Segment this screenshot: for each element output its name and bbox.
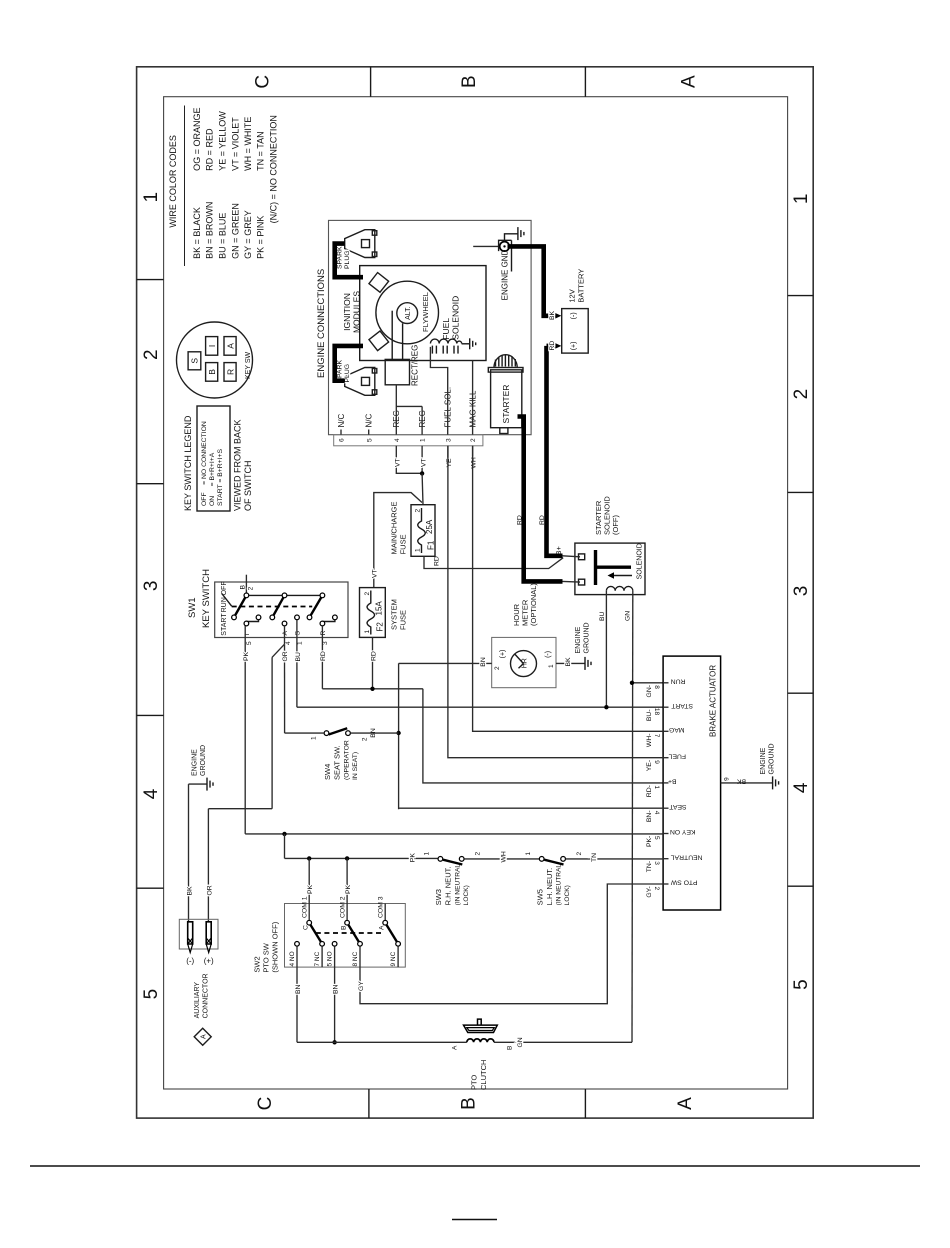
svg-text:BATTERY: BATTERY: [577, 269, 586, 303]
auxiliary connector J2: [179, 919, 218, 965]
svg-text:A: A: [452, 1045, 459, 1050]
fuel solenoid coil L1: [430, 339, 461, 354]
rectifier regulator U1: [385, 345, 419, 386]
engine ground terminal GND1: [473, 240, 511, 300]
wire BN hour meter: [399, 657, 492, 667]
svg-text:(SHOWN OFF): (SHOWN OFF): [271, 921, 280, 972]
page rule bottom: [30, 1166, 920, 1220]
svg-text:(-): (-): [570, 312, 577, 319]
svg-text:12V: 12V: [568, 289, 577, 302]
wire BU from SW1-S: [295, 620, 302, 707]
svg-text:LOCK): LOCK): [463, 885, 470, 905]
svg-text:C: C: [303, 925, 310, 930]
SW1 terminal labels: [244, 631, 327, 636]
SW1 pin numbers: [246, 641, 329, 645]
svg-text:F2: F2: [376, 622, 385, 632]
svg-text:PLUG: PLUG: [344, 364, 351, 383]
svg-text:PTO: PTO: [470, 1075, 479, 1090]
svg-text:CLUTCH: CLUTCH: [479, 1060, 488, 1090]
svg-text:(N/C) = NO CONNECTION: (N/C) = NO CONNECTION: [268, 115, 278, 223]
svg-text:MAG: MAG: [669, 726, 684, 733]
svg-text:YE-: YE-: [646, 760, 653, 771]
wire VT F1 to F2: [372, 493, 423, 588]
svg-text:RD: RD: [320, 651, 327, 661]
svg-text:BK = BLACK: BK = BLACK: [192, 207, 202, 259]
svg-text:STARTER: STARTER: [501, 385, 511, 424]
svg-text:3: 3: [791, 586, 812, 597]
svg-text:AUXILIARY: AUXILIARY: [194, 982, 201, 1019]
svg-text:4: 4: [394, 438, 401, 442]
svg-text:(-): (-): [186, 957, 194, 966]
node BU junction: [604, 705, 608, 709]
node GN junction: [630, 681, 634, 685]
node PK junction: [282, 832, 286, 836]
PTO clutch rotor symbol: [464, 1019, 498, 1032]
svg-text:1: 1: [311, 736, 318, 740]
svg-text:ENGINE: ENGINE: [760, 747, 767, 774]
node PK bus com2: [345, 856, 349, 860]
svg-text:SW1: SW1: [187, 597, 198, 618]
wire thick RD starter to solenoid: [518, 417, 563, 582]
svg-text:1: 1: [653, 785, 660, 789]
hour meter label: [512, 583, 538, 626]
PTO switch SW2: [285, 858, 406, 967]
wire thick RD battery plus stub: [547, 344, 556, 349]
svg-text:PK: PK: [307, 884, 314, 894]
wire BN seat net: [399, 663, 663, 809]
wire YE pin3 stub: [446, 446, 453, 468]
key switch SW1 box: [187, 569, 348, 638]
wire PK key-on net: [245, 833, 663, 835]
svg-text:ENGINE GND: ENGINE GND: [501, 249, 510, 300]
svg-text:VIEWED FROM BACK: VIEWED FROM BACK: [233, 419, 243, 511]
svg-text:5: 5: [141, 989, 162, 1000]
svg-text:7 NC: 7 NC: [314, 951, 321, 966]
svg-text:1: 1: [364, 630, 371, 634]
svg-text:SPARK: SPARK: [337, 246, 344, 269]
starter solenoid K1: [575, 543, 645, 595]
svg-text:ON = B+R+I+A: ON = B+R+I+A: [209, 452, 216, 506]
spark plug 2: [345, 368, 377, 396]
svg-text:A: A: [675, 1097, 696, 1110]
SW1 pole 3 arm: [310, 595, 323, 617]
svg-text:6: 6: [339, 438, 346, 442]
svg-text:RD: RD: [370, 651, 377, 661]
svg-text:15A: 15A: [375, 601, 384, 616]
zone ticks bottom strip: [788, 296, 814, 887]
svg-text:YE: YE: [446, 458, 453, 468]
wire RD B+ to brake actuator: [423, 689, 663, 783]
ignition module 2: [369, 331, 389, 351]
svg-text:TN = TAN: TN = TAN: [255, 131, 265, 170]
svg-text:L.H. NEUT.: L.H. NEUT.: [545, 868, 554, 906]
svg-text:18: 18: [653, 708, 660, 716]
engine gnd ground symbol: [505, 227, 524, 241]
aux ground label: [192, 745, 208, 776]
wire TN SW5 to brake NEUTRAL: [566, 853, 663, 862]
svg-text:1: 1: [415, 548, 422, 552]
svg-text:7: 7: [653, 734, 660, 738]
svg-text:PK: PK: [409, 853, 416, 863]
wire WH engine to MAG: [473, 446, 663, 732]
svg-text:A: A: [379, 925, 386, 930]
aux connector diamond A: [194, 1028, 211, 1045]
flywheel: [376, 281, 439, 344]
svg-text:2: 2: [247, 586, 254, 590]
SW1 contact circles: [244, 593, 249, 598]
PTO clutch label: [470, 1060, 489, 1090]
svg-text:PK = PINK: PK = PINK: [255, 216, 265, 259]
svg-text:4: 4: [285, 641, 292, 645]
svg-text:2: 2: [791, 389, 812, 400]
svg-text:KEY SWITCH: KEY SWITCH: [201, 569, 212, 628]
SW1 B bus: [246, 594, 322, 596]
svg-text:2: 2: [653, 886, 660, 890]
wire VT pin4 stub: [395, 446, 423, 474]
svg-text:PLUG: PLUG: [344, 250, 351, 269]
engine connector terminal strip J1: [334, 387, 483, 446]
svg-text:1: 1: [525, 852, 532, 856]
SW2 pin labels: [289, 951, 397, 966]
battery BT1: [562, 309, 589, 354]
svg-text:GROUND: GROUND: [200, 745, 207, 776]
wire thick BK engine gnd to battery: [508, 246, 556, 315]
SW1 position pointer: [222, 594, 232, 607]
svg-text:(OPTIONAL): (OPTIONAL): [529, 583, 538, 626]
wire RD F1 to solenoid B+: [424, 556, 563, 568]
node RD junction at F2: [370, 687, 374, 691]
svg-text:4 NO: 4 NO: [289, 951, 296, 966]
wire RD thin into solenoid top terminal: [563, 556, 581, 557]
wire PK bus SW2/SW3: [285, 857, 438, 859]
svg-text:BU: BU: [599, 611, 606, 621]
svg-text:IN SEAT): IN SEAT): [352, 752, 359, 780]
svg-text:(IN NEUTRAL: (IN NEUTRAL: [556, 864, 563, 906]
svg-text:S: S: [190, 358, 200, 364]
svg-text:FUSE: FUSE: [399, 534, 408, 554]
svg-text:S: S: [295, 631, 302, 636]
svg-text:NEUTRAL: NEUTRAL: [671, 853, 703, 860]
wire GY SW2 pin8 to brake PTO SW: [358, 884, 663, 1004]
svg-text:OFF: OFF: [221, 581, 228, 595]
svg-text:SW2: SW2: [253, 956, 262, 972]
svg-text:2: 2: [470, 438, 477, 442]
svg-text:GY-: GY-: [646, 886, 653, 897]
svg-text:YE = YELLOW: YE = YELLOW: [218, 111, 228, 171]
svg-text:N/C: N/C: [365, 414, 374, 428]
svg-text:2: 2: [494, 666, 501, 670]
svg-text:ENGINE CONNECTIONS: ENGINE CONNECTIONS: [316, 269, 327, 378]
svg-text:3: 3: [653, 861, 660, 865]
svg-text:PTO SW: PTO SW: [262, 942, 271, 972]
wire ALT to RECT/REG lead 1: [391, 311, 393, 360]
wire BN SW2 pin4: [295, 967, 302, 1042]
svg-text:R: R: [320, 631, 327, 636]
svg-text:5: 5: [366, 438, 373, 442]
svg-text:START = B+R+I+S: START = B+R+I+S: [217, 448, 224, 506]
svg-text:B: B: [207, 369, 217, 375]
svg-text:2: 2: [364, 592, 371, 596]
svg-text:OR: OR: [282, 651, 289, 661]
svg-text:CONNECTOR: CONNECTOR: [203, 973, 210, 1018]
zone letters right: [253, 75, 700, 89]
svg-text:ENGINE: ENGINE: [192, 749, 199, 776]
svg-text:KEY ON: KEY ON: [670, 828, 696, 835]
svg-text:ALT.: ALT.: [405, 306, 412, 320]
key switch legend box: [183, 406, 253, 511]
fuse F1 label: [390, 501, 408, 554]
neutral switch SW5: [525, 852, 583, 865]
SW1 B stub: [245, 575, 247, 596]
svg-text:PK: PK: [243, 651, 250, 661]
svg-text:B: B: [459, 1097, 480, 1110]
svg-text:BK: BK: [549, 310, 556, 320]
brake actuator pin function labels: [668, 678, 703, 886]
svg-text:2: 2: [576, 852, 583, 856]
svg-text:FLYWHEEL: FLYWHEEL: [421, 292, 430, 332]
battery plus arrow: [555, 343, 561, 349]
svg-text:1: 1: [141, 192, 162, 203]
SW3 labels: [434, 864, 470, 906]
svg-text:GN-: GN-: [646, 685, 653, 697]
wire VT pin1: [420, 446, 427, 474]
brake actuator pin ticks: [663, 683, 668, 884]
wire VT to F1: [421, 473, 424, 504]
svg-text:(OFF): (OFF): [611, 515, 620, 535]
svg-text:6: 6: [722, 777, 729, 781]
wire color codes legend: [168, 106, 278, 267]
aux engine ground symbol: [207, 778, 213, 791]
fuse F2 SYSTEM 15A: [360, 588, 386, 638]
svg-text:(+): (+): [570, 342, 577, 351]
svg-text:SW4: SW4: [323, 764, 332, 780]
ignition module 1: [369, 273, 389, 293]
svg-text:VT: VT: [395, 458, 402, 467]
svg-text:BK: BK: [736, 778, 746, 785]
svg-text:I: I: [207, 345, 217, 347]
svg-text:9 NC: 9 NC: [390, 951, 397, 966]
svg-text:LOCK): LOCK): [564, 885, 571, 905]
zone numbers top: [141, 192, 162, 999]
svg-text:KEY SW: KEY SW: [245, 352, 252, 379]
svg-text:BN = BROWN: BN = BROWN: [205, 202, 215, 259]
svg-text:PK: PK: [345, 884, 352, 894]
ignition modules label: [342, 291, 362, 333]
svg-text:RD: RD: [434, 556, 441, 566]
wire RD thin into solenoid lower terminal: [563, 580, 581, 583]
svg-text:OR: OR: [207, 885, 214, 895]
wire YE engine to FUEL: [448, 446, 663, 758]
svg-text:(+): (+): [499, 650, 506, 659]
svg-text:RD: RD: [539, 515, 546, 525]
brake actuator engine ground symbol: [773, 776, 779, 789]
svg-text:4: 4: [653, 811, 660, 815]
svg-text:START: START: [671, 702, 693, 709]
svg-text:5 NO: 5 NO: [327, 951, 334, 966]
fuel solenoid label: [441, 296, 461, 340]
hour meter engine ground symbol: [585, 657, 591, 670]
svg-text:1: 1: [791, 194, 812, 205]
wire BU solenoid coil: [297, 591, 663, 707]
neutral switch SW3: [409, 852, 481, 865]
brake actuator pin 6 BK ground wire: [721, 777, 773, 785]
svg-text:A: A: [225, 343, 235, 349]
svg-text:OG = ORANGE: OG = ORANGE: [192, 108, 202, 171]
svg-text:8 NC: 8 NC: [352, 951, 359, 966]
svg-text:VT = VIOLET: VT = VIOLET: [230, 117, 240, 171]
svg-text:2: 2: [415, 509, 422, 513]
zone ticks top strip: [137, 280, 164, 889]
svg-text:8: 8: [653, 685, 660, 689]
svg-text:GN: GN: [625, 611, 632, 621]
svg-text:9: 9: [653, 760, 660, 764]
spark plug 1 label: [337, 246, 351, 269]
starter solenoid label: [594, 496, 620, 535]
svg-text:GROUND: GROUND: [584, 622, 591, 653]
svg-text:IGNITION: IGNITION: [342, 293, 352, 331]
svg-text:R.H. NEUT.: R.H. NEUT.: [444, 867, 453, 906]
svg-text:BRAKE ACTUATOR: BRAKE ACTUATOR: [709, 665, 718, 737]
zone ticks right strip: [371, 67, 586, 97]
wire GN solenoid coil: [625, 591, 664, 1043]
wire REG pin1: [396, 406, 422, 434]
svg-text:GN: GN: [517, 1037, 524, 1047]
node VT junction: [420, 471, 424, 475]
svg-text:(OPERATOR: (OPERATOR: [344, 740, 351, 780]
svg-text:4: 4: [141, 788, 162, 799]
brake actuator module A1: [663, 656, 721, 910]
svg-text:2: 2: [141, 349, 162, 360]
svg-text:SW5: SW5: [535, 889, 544, 905]
svg-text:SOLENOID: SOLENOID: [451, 296, 461, 340]
svg-text:RD-: RD-: [646, 785, 653, 797]
wire ALT to RECT/REG lead 2: [402, 323, 404, 359]
engine connections enclosure: [316, 220, 531, 434]
hour meter ground label: [575, 622, 591, 653]
svg-text:TN-: TN-: [646, 861, 653, 872]
svg-text:R: R: [225, 369, 235, 375]
svg-text:25A: 25A: [425, 519, 434, 534]
svg-text:BN: BN: [333, 984, 340, 994]
svg-text:B: B: [240, 585, 247, 590]
svg-text:1: 1: [424, 852, 431, 856]
PTO clutch coil L2: [467, 1039, 494, 1042]
svg-text:(-): (-): [545, 651, 552, 658]
svg-text:RECT/REG: RECT/REG: [411, 345, 420, 386]
svg-text:BK: BK: [187, 886, 194, 896]
svg-text:(+): (+): [204, 957, 214, 966]
wire MAG KILL pin2: [472, 361, 474, 435]
spark plug 2 cable: [335, 346, 363, 381]
svg-text:VT: VT: [372, 569, 379, 578]
svg-text:WH: WH: [501, 851, 508, 862]
zone ticks left strip: [369, 1089, 586, 1118]
svg-text:2: 2: [475, 852, 482, 856]
spark plug 1: [345, 230, 377, 258]
wire GN clutch B: [494, 1037, 632, 1047]
svg-text:4: 4: [791, 782, 812, 793]
wire RD F2 to node: [370, 637, 377, 688]
svg-text:WH-: WH-: [646, 734, 653, 748]
border outer frame: [137, 67, 814, 1118]
svg-text:B+: B+: [668, 778, 677, 785]
SW5 labels: [535, 864, 571, 906]
node BN junction: [396, 731, 400, 735]
wire OR SW1-A to aux: [207, 657, 273, 922]
wire WH SW3 to SW5: [464, 851, 539, 862]
wire BK hour meter to ground: [556, 657, 585, 667]
engine internal block outline: [360, 266, 486, 361]
wire BN SW2 pin5: [333, 967, 340, 1042]
svg-text:WH = WHITE: WH = WHITE: [243, 117, 253, 171]
svg-text:RD = RED: RD = RED: [205, 128, 215, 171]
svg-text:B: B: [340, 925, 347, 930]
svg-text:PK-: PK-: [646, 836, 653, 847]
svg-text:2: 2: [362, 737, 369, 741]
border inner frame: [164, 97, 788, 1089]
wire FUEL SOL pin3: [430, 347, 447, 435]
brake actuator wire color labels: [646, 685, 653, 898]
svg-text:FUEL: FUEL: [668, 752, 686, 759]
wire PK branch to SW2 bus: [284, 834, 286, 859]
svg-text:1: 1: [420, 438, 427, 442]
svg-text:A: A: [679, 75, 700, 88]
svg-text:COM 1: COM 1: [302, 896, 309, 918]
svg-text:MODULES: MODULES: [352, 291, 362, 333]
SW1 mechanical link dashed: [232, 606, 313, 608]
wire BN to PTO clutch A: [297, 1041, 467, 1043]
svg-text:1: 1: [297, 641, 304, 645]
svg-text:COM 2: COM 2: [339, 896, 346, 918]
svg-text:C: C: [255, 1097, 276, 1111]
fuel solenoid ground: [462, 338, 476, 349]
svg-text:WH: WH: [470, 457, 477, 468]
SW1 terminal I elbow: [246, 620, 258, 622]
SW1 pole 2 arm: [272, 595, 284, 617]
svg-text:RUN: RUN: [671, 678, 686, 685]
node PK bus com1: [307, 856, 311, 860]
SW2 labels: [253, 921, 280, 972]
svg-text:BU: BU: [295, 652, 302, 662]
zone numbers bottom: [791, 194, 812, 990]
svg-text:F1: F1: [427, 540, 436, 550]
svg-text:GY = GREY: GY = GREY: [243, 210, 253, 259]
svg-text:GROUND: GROUND: [769, 743, 776, 774]
starter motor M1: [488, 355, 523, 434]
svg-text:VT: VT: [420, 458, 427, 467]
wire SW4 t1 to A net: [285, 732, 324, 734]
seat switch label: [323, 740, 359, 780]
wire PK from SW1-I: [243, 626, 250, 834]
svg-text:BU = BLUE: BU = BLUE: [218, 213, 228, 259]
SW1 terminal A: [282, 621, 287, 626]
spark plug 2 label: [337, 359, 351, 382]
svg-text:1: 1: [548, 664, 555, 668]
wire BK aux to engine ground: [187, 784, 207, 922]
key switch face view SW1: [177, 322, 253, 398]
svg-text:OFF = NO CONNECTION: OFF = NO CONNECTION: [201, 421, 208, 506]
SW1 terminal R elbow: [322, 620, 335, 622]
svg-text:OF SWITCH: OF SWITCH: [243, 461, 253, 512]
brake actuator ground label: [760, 743, 776, 774]
svg-text:BN-: BN-: [646, 810, 653, 822]
svg-text:MAIN/CHARGE: MAIN/CHARGE: [390, 501, 399, 554]
SW1 pole 1 arm: [234, 595, 246, 617]
svg-text:GY: GY: [358, 981, 365, 991]
svg-text:RD: RD: [549, 341, 556, 351]
svg-text:B: B: [507, 1046, 514, 1050]
svg-text:A: A: [282, 631, 289, 636]
